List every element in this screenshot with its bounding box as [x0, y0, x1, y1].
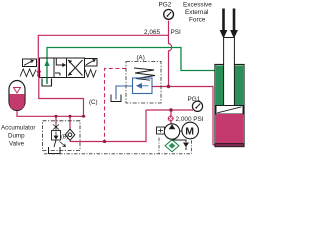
svg-text:PSI: PSI	[171, 29, 182, 36]
tank under valve T port	[42, 79, 52, 87]
accumulator shell	[9, 81, 25, 111]
cylinder barrel	[215, 65, 244, 147]
svg-text:(A): (A)	[137, 55, 145, 62]
node junction dump valve tap	[55, 115, 58, 118]
compensator mark	[158, 129, 163, 133]
accumulator dump valve enclosure	[43, 121, 81, 151]
piston	[216, 106, 243, 115]
pump compensator box	[157, 127, 165, 134]
relief valve spring	[134, 68, 155, 80]
svg-text:Accumulator: Accumulator	[1, 125, 35, 132]
svg-text:M: M	[185, 125, 194, 137]
filter diamond	[165, 140, 179, 152]
node junction valve B line / accumulator line	[82, 115, 85, 118]
solenoid left slash	[24, 60, 33, 65]
solenoid right slash	[86, 60, 95, 65]
svg-text:2,000 PSI: 2,000 PSI	[176, 116, 204, 123]
wire green A-line valve to cylinder	[47, 48, 216, 84]
node valve B port	[37, 74, 40, 77]
spring right	[85, 70, 96, 78]
svg-text:Dump: Dump	[8, 133, 25, 140]
dump valve spring star	[53, 124, 59, 131]
svg-text:Force: Force	[189, 17, 206, 24]
dump valve pilot arrow	[60, 142, 66, 147]
node junction check valve tap	[69, 115, 72, 118]
dump valve drain	[54, 140, 56, 147]
check valve B ball	[68, 133, 72, 137]
force arrow 1	[222, 9, 225, 31]
cylinder cap side fluid	[216, 114, 243, 144]
node junction pump discharge	[169, 108, 172, 111]
dump valve body	[52, 131, 61, 141]
valve crossed arrows cell	[68, 60, 83, 76]
reservoir dashdot	[44, 138, 192, 154]
wire red check valve stub	[69, 116, 71, 128]
crossed cell arrowheads	[68, 60, 72, 63]
dump valve internal arrow	[54, 132, 58, 140]
gauge PG2	[164, 10, 174, 20]
wire red check valve to bottom loop	[69, 141, 71, 142]
drain check arrow	[183, 143, 189, 148]
piston rod	[224, 38, 235, 106]
green line into tank	[46, 78, 48, 85]
coupling	[180, 130, 182, 132]
svg-text:PG2: PG2	[159, 2, 172, 9]
wire red vertical with hop over green	[169, 35, 172, 86]
svg-text:Valve: Valve	[9, 141, 25, 148]
wire red down from pump line to bottom loop	[70, 110, 146, 142]
relief valve arrow	[137, 84, 149, 88]
gauge PG1	[192, 101, 202, 111]
wire red valve B port down and right	[39, 76, 84, 116]
valve elbow arrowhead	[62, 63, 66, 67]
spring left	[20, 69, 36, 77]
dump valve tank	[49, 147, 61, 154]
svg-text:(C): (C)	[89, 99, 98, 106]
check valve B diamond	[65, 129, 75, 140]
relief valve body	[133, 78, 153, 94]
pump circle P1	[164, 124, 179, 139]
valve divider 1	[53, 58, 55, 78]
pump triangle	[169, 124, 176, 129]
wire red dump valve stub	[55, 116, 57, 123]
solenoid right box	[85, 59, 98, 67]
node junction upper pressure line / PG2 riser	[167, 85, 170, 88]
wire red pump line 2000psi	[146, 109, 193, 111]
accumulator gas triangle	[14, 88, 21, 94]
case drain line	[172, 140, 186, 142]
force arrow 2	[233, 9, 236, 31]
wire red upper pressure line to cylinder	[152, 87, 217, 145]
green flow arrowhead in valve	[44, 60, 49, 66]
wire red accumulator line	[17, 111, 86, 116]
accumulator fluid fill	[9, 94, 24, 110]
relief drain blue	[116, 86, 133, 100]
node junction pilot C at bottom loop	[103, 140, 106, 143]
wire red pump riser	[170, 110, 172, 125]
svg-text:(B): (B)	[61, 135, 68, 141]
relief drain tank	[111, 95, 121, 102]
svg-text:Excessive: Excessive	[183, 2, 212, 9]
motor circle M1	[182, 122, 199, 139]
test point circle X	[168, 116, 174, 122]
solenoid left box	[23, 59, 37, 67]
filter inner	[169, 143, 176, 149]
wire red gauge stub PG2	[168, 21, 170, 36]
svg-text:PG1: PG1	[188, 96, 201, 103]
red flow arrowhead at valve B port	[36, 71, 41, 76]
svg-text:2,065: 2,065	[144, 29, 160, 36]
directional valve U2 body	[40, 58, 85, 78]
pump suction line	[171, 139, 173, 141]
valve center cell elbow path	[55, 59, 63, 76]
pilot line C dashed	[105, 69, 127, 142]
cylinder rod side green fluid	[216, 66, 224, 106]
wire red supply top	[38, 35, 168, 75]
svg-text:External: External	[185, 9, 208, 16]
valve divider 2	[66, 58, 68, 78]
relief valve enclosure A	[126, 62, 161, 104]
cylinder bottom cap	[215, 144, 244, 147]
